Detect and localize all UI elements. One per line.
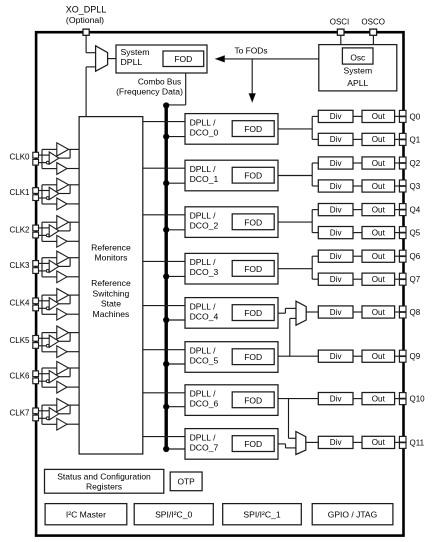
label Div Q11 [330,438,343,447]
svg-text:XO_DPLL: XO_DPLL [66,4,107,14]
svg-text:SPI/I²C_0: SPI/I²C_0 [155,510,192,520]
label FOD row 5 [244,352,262,362]
wire DPLL/DCO_6 output [278,398,318,400]
port Q3 pads [399,180,406,192]
block SPI/I2C_1 [223,504,302,525]
junction dot combo bus row 6 [163,404,169,410]
label Q0 [410,112,421,121]
port Q2 pads [399,157,406,169]
wire reference monitors to DPLL/DCO_3 [143,260,185,262]
junction dot combo bus row 5 [163,361,169,367]
wire Out to port Q9 [395,355,400,357]
label Out Q9 [372,352,386,361]
wires CLK2 to reference monitors [59,222,79,241]
svg-text:DPLL /: DPLL / [190,164,217,174]
block Div Q2 [318,157,353,169]
label DPLL/DCO_2 [190,211,219,231]
block Status and Configuration Registers [45,469,164,493]
block Div Q8 [318,306,353,318]
svg-text:Combo Bus: Combo Bus [138,76,181,86]
port Q4 pads [399,204,406,216]
label CLK2 [9,226,30,235]
wires CLK7 to reference monitors [59,405,79,424]
svg-text:Q7: Q7 [410,275,421,284]
wires CLK3 to reference monitors [59,258,79,277]
buffer CLK7 bottom [57,418,67,430]
svg-text:Div: Div [330,135,343,144]
svg-text:Div: Div [330,159,343,168]
wire combo bus to DPLL/DCO_6 [166,406,185,408]
wire mux M3 to Div Q11 [306,441,319,443]
svg-text:Q11: Q11 [410,438,425,447]
svg-text:DCO_5: DCO_5 [190,356,219,366]
label DPLL/DCO_4 [190,301,219,321]
label Q9 [410,352,421,361]
svg-text:Reference: Reference [91,242,131,252]
label CLK4 [9,298,30,307]
buffer CLK3 differential [49,260,59,272]
label CLK7 [9,408,30,417]
chip outer boundary [36,32,403,535]
wire output split row 1 [312,163,318,186]
wire Out to port Q7 [395,278,400,280]
block Div Q5 [318,227,353,239]
port Q6 pads [399,250,406,262]
block Div Q0 [318,110,353,122]
label DPLL/DCO_0 [190,117,219,137]
label System [121,47,150,57]
wire Out to port Q10 [395,398,400,400]
label SPI/I2C_0 [155,510,192,520]
wire Out to port Q11 [395,441,400,443]
port CLK1 pads [33,188,39,201]
svg-text:CLK4: CLK4 [9,298,30,307]
label Div Q8 [330,308,343,317]
label Div Q10 [330,394,343,403]
block Div Q9 [318,350,353,362]
block FOD row 4 [232,305,274,321]
label Div Q1 [330,135,343,144]
wire reference monitors to mux [86,67,96,117]
wire To FODs horizontal [224,58,319,60]
block GPIO/JTAG [312,504,393,525]
svg-text:OSCI: OSCI [330,17,350,26]
svg-text:Switching: Switching [93,289,130,299]
port Q7 pads [399,273,406,285]
block Out Q7 [362,273,395,285]
label Osc [350,52,365,62]
wire Div to Out Q1 [353,138,362,140]
buffer CLK2 differential [49,225,59,237]
wire Div to Out Q10 [353,398,362,400]
wire DPLL/DCO_0 output [278,128,312,130]
svg-text:DPLL /: DPLL / [190,432,217,442]
label FOD row 2 [244,217,262,227]
svg-text:Out: Out [372,394,386,403]
svg-text:Q2: Q2 [410,159,421,168]
wire DPLL/DCO_6 branch to mux M3 [289,399,296,439]
svg-text:DCO_6: DCO_6 [190,399,219,409]
svg-text:DCO_0: DCO_0 [190,127,219,137]
buffer CLK0 top [57,143,69,156]
label FOD row 4 [244,308,262,318]
label Out Q3 [372,182,386,191]
block DPLL/DCO_7 [185,429,278,460]
buffer CLK5 bottom [57,346,67,358]
block Div Q7 [318,273,353,285]
wire output split row 3 [312,256,318,279]
label Out Q4 [372,205,386,214]
svg-text:CLK0: CLK0 [9,153,30,162]
svg-text:Status and Configuration: Status and Configuration [57,471,151,481]
label Q8 [410,308,421,317]
wire Div to Out Q8 [353,311,362,313]
label Q4 [410,206,421,215]
block Out Q5 [362,227,395,239]
wire reference monitors to DPLL/DCO_1 [143,167,185,169]
block DPLL/DCO_5 [185,342,278,373]
wire Div to Out Q4 [353,209,362,211]
buffer CLK6 bottom [57,381,67,393]
buffer CLK5 top [57,326,69,339]
svg-text:FOD: FOD [244,124,262,134]
svg-text:FOD: FOD [244,395,262,405]
svg-text:System: System [343,66,372,76]
wire Out to port Q2 [395,162,400,164]
svg-text:Div: Div [330,394,343,403]
buffer CLK4 bottom [57,308,67,320]
label Out Q10 [372,394,386,403]
wire Div to Out Q5 [353,232,362,234]
wire mux M1 to System DPLL [108,58,116,60]
label Reference Monitors [91,242,131,262]
label CLK3 [9,261,30,270]
label Q5 [410,229,421,238]
svg-text:I²C Master: I²C Master [66,510,106,520]
svg-text:(Frequency Data): (Frequency Data) [116,87,183,97]
block Osc System APLL [319,45,397,91]
svg-text:OSCO: OSCO [361,17,385,26]
svg-text:Q9: Q9 [410,352,421,361]
svg-text:Q4: Q4 [410,206,421,215]
svg-text:Q6: Q6 [410,252,421,261]
block FOD row 5 [232,349,274,365]
svg-text:Div: Div [330,275,343,284]
svg-text:(Optional): (Optional) [66,15,104,25]
label System APLL line1 [343,66,372,76]
combo bus vertical [164,105,167,449]
junction dot combo bus row 4 [163,317,169,323]
wire Out to port Q6 [395,255,400,257]
mux M1 system DPLL input select [96,46,108,71]
label Out Q2 [372,159,386,168]
block OTP [170,472,202,491]
label DPLL/DCO_1 [190,164,219,184]
svg-text:Reference: Reference [91,278,131,288]
svg-text:Registers: Registers [86,481,122,491]
svg-text:FOD: FOD [174,54,192,64]
block I2C Master [45,504,127,525]
buffer CLK3 top [57,251,69,264]
block DPLL/DCO_6 [185,385,278,416]
port Q9 pads [399,350,406,362]
wires CLK1 input network [39,185,57,204]
label Div Q0 [330,112,343,121]
wire combo bus to DPLL/DCO_3 [166,275,185,277]
svg-text:Q8: Q8 [410,308,421,317]
wire DPLL/DCO_5 branch to mux M2 [290,318,296,356]
svg-text:GPIO / JTAG: GPIO / JTAG [328,510,377,520]
svg-text:CLK6: CLK6 [9,371,30,380]
block SPI/I2C_0 [134,504,213,525]
svg-text:DPLL /: DPLL / [190,301,217,311]
block Div Q4 [318,204,353,216]
wires CLK2 input network [39,222,57,241]
inversion bubble CLK2 [46,234,49,237]
junction dot combo bus row 0 [163,134,169,140]
port CLK6 pads [33,371,39,384]
svg-text:DPLL /: DPLL / [190,389,217,399]
svg-text:Div: Div [330,228,343,237]
wire Div to Out Q0 [353,115,362,117]
label Q6 [410,252,421,261]
label System APLL line2 [347,78,368,88]
buffer CLK5 differential [49,335,59,347]
svg-text:Out: Out [372,352,386,361]
wire reference monitors to DPLL/DCO_2 [143,214,185,216]
inversion bubble CLK0 [46,161,49,164]
label Div Q7 [330,275,343,284]
buffer CLK7 top [57,399,69,412]
block Out Q2 [362,157,395,169]
label CLK6 [9,371,30,380]
label OTP [177,477,195,487]
label Out Q6 [372,252,386,261]
svg-text:Out: Out [372,159,386,168]
label Out Q0 [372,112,386,121]
wire reference monitors to DPLL/DCO_5 [143,349,185,351]
svg-text:FOD: FOD [244,264,262,274]
block Out Q8 [362,306,395,318]
label Status and Configuration Registers [57,471,151,491]
wire Div to Out Q7 [353,278,362,280]
wires CLK0 to reference monitors [59,149,79,168]
svg-text:SPI/I²C_1: SPI/I²C_1 [243,510,280,520]
label Q2 [410,159,421,168]
block System DPLL U1 [116,45,207,73]
svg-text:DCO_4: DCO_4 [190,311,219,321]
wire Div to Out Q6 [353,255,362,257]
inversion bubble CLK7 [46,417,49,420]
svg-text:Out: Out [372,275,386,284]
inversion bubble CLK3 [46,270,49,273]
label OSCI [330,17,350,26]
label (Frequency Data) [116,87,183,97]
label Div Q6 [330,252,343,261]
label Combo Bus [138,76,181,86]
svg-text:State: State [101,299,121,309]
port XO_DPLL [83,29,89,35]
wire Out to port Q0 [395,115,400,117]
wire DPLL/DCO_3 output [278,268,312,270]
svg-text:DCO_3: DCO_3 [190,267,219,277]
wires CLK5 input network [39,333,57,352]
svg-text:DPLL: DPLL [121,57,143,67]
block Out Q0 [362,110,395,122]
inversion bubble CLK4 [46,307,49,310]
label GPIO/JTAG [328,510,377,520]
label DPLL/DCO_5 [190,345,219,365]
block DPLL/DCO_1 [185,160,278,191]
wire System DPLL to combo bus [166,73,186,105]
wires CLK0 input network [39,149,57,168]
wire DPLL/DCO_5 output [278,355,318,357]
port OSCI [337,29,344,35]
svg-text:APLL: APLL [347,78,368,88]
svg-text:DPLL /: DPLL / [190,345,217,355]
junction dot combo bus row 2 [163,227,169,233]
port Q11 pads [399,436,406,448]
label FOD row 6 [244,395,262,405]
svg-text:DCO_7: DCO_7 [190,442,219,452]
svg-text:FOD: FOD [244,171,262,181]
port Q8 pads [399,306,406,318]
mux M3 Q11 select [296,432,306,455]
wire Out to port Q8 [395,311,400,313]
block Div Q10 [318,393,353,405]
wire combo bus to DPLL/DCO_4 [166,319,185,321]
buffer CLK2 top [57,216,69,229]
block FOD row 1 [232,167,274,183]
buffer CLK3 bottom [57,271,67,283]
label XO_DPLL [66,4,107,14]
junction dot combo bus top [163,102,169,108]
junction dot combo bus row 7 [163,446,169,452]
buffer CLK6 top [57,361,69,374]
svg-text:Div: Div [330,252,343,261]
buffer CLK4 top [57,289,69,302]
block DPLL/DCO_3 [185,253,278,284]
wire output split row 0 [312,116,318,139]
svg-text:CLK7: CLK7 [9,408,30,417]
label DPLL/DCO_3 [190,257,219,277]
block FOD row 3 [232,261,274,277]
block Out Q3 [362,180,395,192]
buffer CLK4 differential [49,298,59,310]
label Div Q5 [330,228,343,237]
wire Div to Out Q2 [353,162,362,164]
wire reference monitors to DPLL/DCO_6 [143,392,185,394]
wires CLK3 input network [39,258,57,277]
svg-text:OTP: OTP [177,477,195,487]
wire To FODs branch down [251,59,253,95]
svg-text:DPLL /: DPLL / [190,257,217,267]
block Reference Monitors / Switching [79,117,143,454]
svg-text:Q10: Q10 [410,395,426,404]
label Out Q11 [372,438,386,447]
svg-text:Q3: Q3 [410,182,421,191]
svg-text:Out: Out [372,135,386,144]
svg-text:Out: Out [372,182,386,191]
label SPI/I2C_1 [243,510,280,520]
label Div Q4 [330,205,343,214]
label Q10 [410,395,426,404]
wires CLK4 input network [39,295,57,314]
port CLK4 pads [33,298,39,311]
label Div Q3 [330,182,343,191]
label Out Q5 [372,228,386,237]
svg-text:Q1: Q1 [410,135,421,144]
block Out Q9 [362,350,395,362]
svg-text:Osc: Osc [350,52,365,62]
buffer CLK0 bottom [57,163,67,175]
svg-text:To FODs: To FODs [234,45,267,55]
label To FODs [234,45,267,55]
wires CLK6 to reference monitors [59,368,79,387]
label Div Q9 [330,352,343,361]
block Div Q11 [318,436,353,448]
label Out Q1 [372,135,386,144]
wire combo bus to DPLL/DCO_0 [166,136,185,138]
buffer CLK2 bottom [57,235,67,247]
wire combo bus to DPLL/DCO_7 [166,448,185,450]
port CLK2 pads [33,225,39,238]
buffer CLK7 differential [49,408,59,420]
label Q1 [410,135,421,144]
wire DPLL/DCO_4 to mux M2 [278,308,296,313]
label FOD row 0 [244,124,262,134]
wires CLK5 to reference monitors [59,333,79,352]
svg-text:DPLL /: DPLL / [190,117,217,127]
buffer CLK6 differential [49,371,59,383]
svg-text:CLK5: CLK5 [9,336,30,345]
wires CLK4 to reference monitors [59,295,79,314]
wire OSCO to APLL [372,35,374,44]
svg-text:FOD: FOD [244,439,262,449]
label (Optional) [66,15,104,25]
wire output split row 2 [312,210,318,233]
wire Out to port Q4 [395,209,400,211]
inversion bubble CLK1 [46,197,49,200]
wire reference monitors to DPLL/DCO_4 [143,305,185,307]
wire mux M2 to Div Q8 [306,311,318,313]
wires CLK1 to reference monitors [59,185,79,204]
wire XO_DPLL to mux [86,35,96,52]
buffer CLK1 differential [49,187,59,199]
svg-text:Monitors: Monitors [94,253,127,263]
buffer CLK1 top [57,178,69,191]
block DPLL/DCO_2 [185,207,278,238]
label CLK0 [9,153,30,162]
wire OSCI to APLL [340,35,342,44]
svg-text:Out: Out [372,228,386,237]
block Osc crystal [342,48,373,64]
svg-text:Div: Div [330,205,343,214]
label FOD row 7 [244,439,262,449]
wire Out to port Q3 [395,185,400,187]
svg-text:Q0: Q0 [410,112,421,121]
svg-text:Div: Div [330,352,343,361]
block Out Q10 [362,393,395,405]
arrowhead into system FOD [216,56,225,62]
label Out Q8 [372,308,386,317]
wire Out to port Q5 [395,232,400,234]
svg-text:DCO_2: DCO_2 [190,221,219,231]
svg-text:Machines: Machines [93,309,130,319]
block DPLL/DCO_4 [185,298,278,329]
svg-text:CLK2: CLK2 [9,226,30,235]
block Div Q3 [318,180,353,192]
